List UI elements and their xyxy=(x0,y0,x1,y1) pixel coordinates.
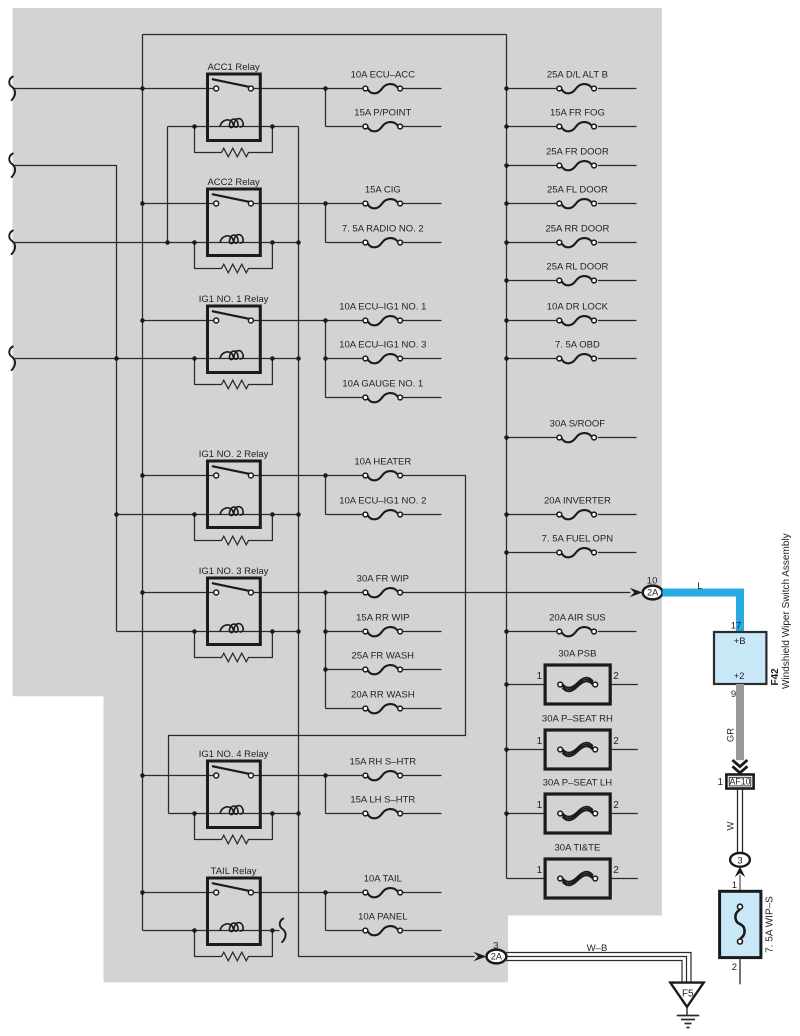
svg-text:15A FR FOG: 15A FR FOG xyxy=(550,108,605,119)
svg-text:10A DR LOCK: 10A DR LOCK xyxy=(547,302,609,313)
svg-text:3: 3 xyxy=(493,940,498,951)
svg-text:10A GAUGE NO. 1: 10A GAUGE NO. 1 xyxy=(342,379,423,390)
svg-text:2: 2 xyxy=(732,962,737,973)
svg-text:Windshield Wiper Switch Assemb: Windshield Wiper Switch Assembly xyxy=(781,533,792,689)
svg-text:IG1 NO. 4 Relay: IG1 NO. 4 Relay xyxy=(199,749,269,760)
svg-text:10A ECU–ACC: 10A ECU–ACC xyxy=(351,70,416,81)
svg-text:17: 17 xyxy=(731,620,742,631)
svg-text:10: 10 xyxy=(647,576,658,587)
svg-text:10A PANEL: 10A PANEL xyxy=(358,912,407,923)
svg-text:10A HEATER: 10A HEATER xyxy=(354,457,411,468)
svg-text:W: W xyxy=(726,821,737,830)
svg-text:2: 2 xyxy=(613,865,619,876)
svg-text:15A RH S–HTR: 15A RH S–HTR xyxy=(350,757,417,768)
svg-text:F5: F5 xyxy=(682,989,694,1000)
svg-text:IG1 NO. 3 Relay: IG1 NO. 3 Relay xyxy=(199,566,269,577)
svg-text:15A RR WIP: 15A RR WIP xyxy=(356,613,409,624)
svg-text:20A RR WASH: 20A RR WASH xyxy=(351,690,415,701)
svg-text:25A D/L ALT B: 25A D/L ALT B xyxy=(547,70,608,81)
svg-text:+2: +2 xyxy=(734,671,745,682)
svg-text:1: 1 xyxy=(537,671,543,682)
svg-text:IG1 NO. 2 Relay: IG1 NO. 2 Relay xyxy=(199,449,269,460)
svg-text:10A TAIL: 10A TAIL xyxy=(364,874,402,885)
svg-text:1: 1 xyxy=(537,800,543,811)
svg-text:9: 9 xyxy=(731,689,736,700)
svg-text:25A FL DOOR: 25A FL DOOR xyxy=(547,185,608,196)
svg-text:1: 1 xyxy=(732,880,737,891)
svg-text:1: 1 xyxy=(537,865,543,876)
svg-text:GR: GR xyxy=(726,728,737,742)
svg-text:W–B: W–B xyxy=(587,943,608,954)
svg-text:F42: F42 xyxy=(770,668,781,686)
svg-text:10A ECU–IG1 NO. 2: 10A ECU–IG1 NO. 2 xyxy=(339,496,426,507)
svg-text:7. 5A RADIO NO. 2: 7. 5A RADIO NO. 2 xyxy=(342,224,424,235)
svg-text:2: 2 xyxy=(613,671,619,682)
svg-text:30A P–SEAT RH: 30A P–SEAT RH xyxy=(542,714,613,725)
svg-text:1: 1 xyxy=(717,777,723,788)
svg-text:2A: 2A xyxy=(647,588,659,598)
svg-text:ACC2 Relay: ACC2 Relay xyxy=(207,177,260,188)
svg-text:25A RL DOOR: 25A RL DOOR xyxy=(546,262,608,273)
svg-text:7. 5A WIP–S: 7. 5A WIP–S xyxy=(765,896,776,953)
svg-text:2: 2 xyxy=(613,800,619,811)
svg-text:25A FR DOOR: 25A FR DOOR xyxy=(546,147,609,158)
svg-text:2A: 2A xyxy=(491,952,503,962)
svg-text:7. 5A FUEL OPN: 7. 5A FUEL OPN xyxy=(542,534,614,545)
svg-text:2: 2 xyxy=(613,736,619,747)
svg-text:25A FR WASH: 25A FR WASH xyxy=(352,651,415,662)
svg-text:30A P–SEAT LH: 30A P–SEAT LH xyxy=(543,778,612,789)
svg-text:TAIL Relay: TAIL Relay xyxy=(211,866,257,877)
svg-text:10A ECU–IG1 NO. 3: 10A ECU–IG1 NO. 3 xyxy=(339,340,426,351)
svg-text:1: 1 xyxy=(537,736,543,747)
svg-text:20A INVERTER: 20A INVERTER xyxy=(544,496,611,507)
svg-text:30A TI&TE: 30A TI&TE xyxy=(555,843,601,854)
svg-text:7. 5A OBD: 7. 5A OBD xyxy=(555,340,600,351)
svg-text:30A FR WIP: 30A FR WIP xyxy=(357,574,409,585)
svg-text:15A LH S–HTR: 15A LH S–HTR xyxy=(350,795,415,806)
svg-text:15A P/POINT: 15A P/POINT xyxy=(354,108,411,119)
svg-text:ACC1 Relay: ACC1 Relay xyxy=(207,62,260,73)
svg-text:20A AIR SUS: 20A AIR SUS xyxy=(549,613,606,624)
svg-text:10A ECU–IG1 NO. 1: 10A ECU–IG1 NO. 1 xyxy=(339,302,426,313)
svg-text:IG1 NO. 1 Relay: IG1 NO. 1 Relay xyxy=(199,294,269,305)
svg-text:15A CIG: 15A CIG xyxy=(365,185,401,196)
svg-text:25A RR DOOR: 25A RR DOOR xyxy=(545,224,609,235)
svg-text:+B: +B xyxy=(734,636,746,647)
svg-text:30A S/ROOF: 30A S/ROOF xyxy=(550,419,606,430)
svg-text:30A PSB: 30A PSB xyxy=(558,649,596,660)
svg-text:L: L xyxy=(697,581,702,592)
svg-text:AF10: AF10 xyxy=(729,777,750,787)
svg-text:3: 3 xyxy=(737,855,742,866)
